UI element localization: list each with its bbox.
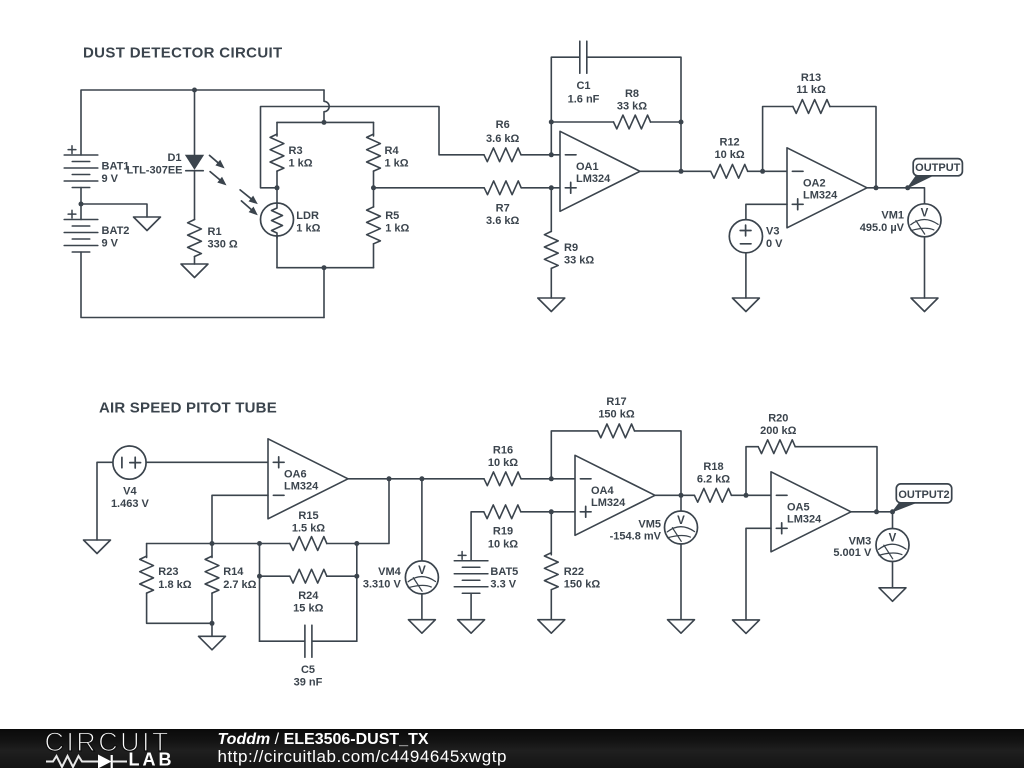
svg-text:LAB: LAB [129, 750, 175, 768]
svg-text:http://circuitlab.com/c4494645: http://circuitlab.com/c4494645xwgtp [218, 747, 508, 766]
svg-text:Toddm / ELE3506-DUST_TX: Toddm / ELE3506-DUST_TX [218, 731, 429, 748]
